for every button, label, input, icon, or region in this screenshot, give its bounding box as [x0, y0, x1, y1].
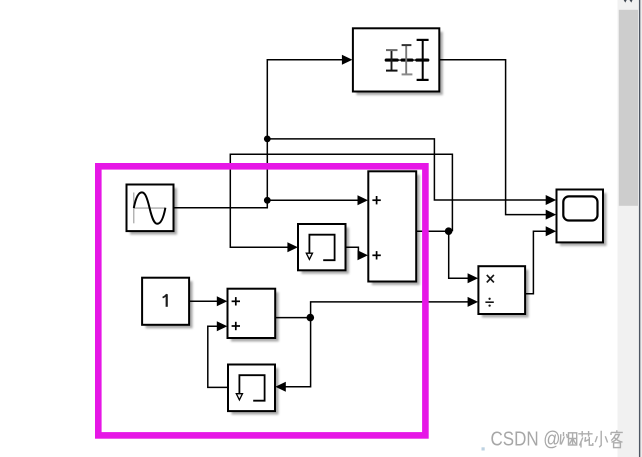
label x — [487, 275, 494, 283]
watermark CJK glyph 花 — [578, 431, 593, 448]
arrow into product in1 — [468, 273, 479, 283]
label divide — [485, 298, 493, 307]
wire: memory M2 out to small sum in2 — [208, 326, 228, 387]
arrow into big sum in1 — [358, 195, 369, 205]
svg-text:CSDN @: CSDN @ — [491, 428, 561, 450]
product / divide block — [478, 266, 525, 314]
wire: constant out to small sum in1 — [189, 300, 218, 302]
scrollbar thumb — [619, 10, 638, 206]
wire: node C down to product in1 — [449, 231, 469, 278]
scrollbar track — [618, 0, 639, 457]
wire: branch at node A to scope in1 — [267, 139, 546, 200]
node C — [445, 227, 453, 235]
node D — [307, 314, 315, 322]
small sum block — [228, 289, 276, 338]
node A — [264, 136, 271, 143]
arrow into scope in3 — [546, 226, 557, 236]
node B — [264, 197, 271, 204]
watermark CJK glyph 烟 — [560, 432, 576, 445]
watermark CJK glyph 小 — [595, 431, 607, 447]
arrow into product in2 — [468, 297, 479, 307]
arrow into scope in2 — [546, 210, 557, 220]
arrow into memory M2 (pointing left) — [275, 382, 286, 392]
block drop shadows — [130, 32, 607, 415]
arrow into small sum in1 — [217, 296, 228, 306]
watermark: CSDN @ — [491, 428, 561, 450]
wire: top block out to scope in2 — [439, 60, 546, 215]
arrow into scope in1 — [546, 195, 557, 205]
window edge line — [639, 0, 641, 457]
arrow into memory M1 — [287, 242, 298, 252]
big sum block — [368, 171, 416, 281]
arrow into small sum in2 — [217, 321, 228, 331]
top block body — [353, 28, 439, 91]
memory block M2 — [228, 365, 275, 412]
wire: node D vertical, to product in2 — [286, 302, 469, 387]
digit 1 drawn as path — [163, 294, 167, 307]
arrow into top block — [342, 55, 353, 65]
wire: product out to scope in3 — [525, 231, 546, 293]
magenta highlight rectangle — [98, 166, 425, 435]
memory block M1 — [298, 224, 346, 270]
arrowheads — [217, 55, 556, 392]
top block icon: stem/errorbar glyph — [386, 40, 429, 80]
arrow into big sum in2 — [358, 250, 369, 260]
wire: memory M1 out to big sum in2 — [346, 247, 360, 255]
constant block "1" — [142, 278, 189, 325]
scrollbar up-arrow tip — [624, 0, 633, 3]
wire: big sum output to node C — [416, 230, 448, 232]
wire: node C up, feedback to memory M1 input — [230, 154, 452, 247]
scope block — [557, 190, 604, 243]
cursor dot — [482, 447, 485, 450]
wire: small sum out to node D — [275, 317, 310, 319]
sine wave source block — [127, 185, 174, 232]
watermark CJK glyph 客 — [611, 430, 623, 447]
wire: branch at node B to big sum in1 — [267, 199, 358, 201]
wire: sine out, up, to top block input — [174, 60, 343, 208]
junction dots — [264, 136, 453, 322]
